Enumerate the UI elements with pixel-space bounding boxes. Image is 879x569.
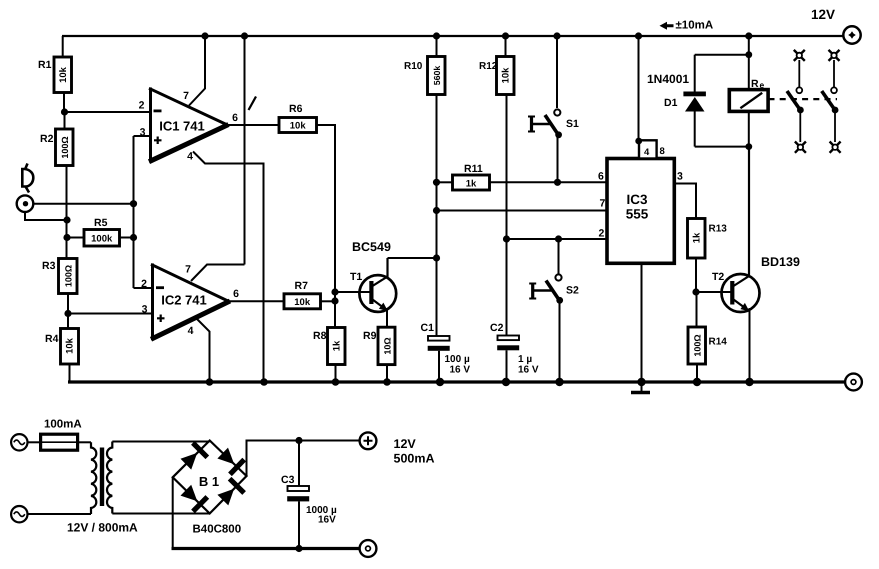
wire: IC2 pin 7 stub to vertical (191, 265, 245, 282)
transformer Tr1 primary winding (91, 442, 96, 514)
resistor R5 100k (84, 230, 120, 247)
wire: IC2 pin 2 from mid vertical (134, 287, 153, 289)
wire: contact 2 lower lead (834, 113, 836, 143)
op-amp IC1 741 triangle (149, 88, 152, 163)
wire: T1 emitter to R9 (386, 308, 388, 327)
wire: relay bottom lead (748, 111, 750, 146)
wire: IC3 pin 1 to bottom rail (641, 263, 643, 382)
node: junction dot S1 on rail (553, 32, 560, 39)
wire: D1 cathode lead (694, 55, 696, 92)
transistor T2 BD139 (722, 274, 760, 312)
svg-text:10k: 10k (501, 67, 512, 84)
svg-text:10k: 10k (290, 121, 307, 132)
svg-text:7: 7 (185, 264, 191, 276)
terminal: 0V output terminal bottom right (845, 374, 862, 391)
wire: mid vertical node (IC1 pin3 / input / R5 / IC2 pin2) (133, 136, 135, 288)
svg-text:6: 6 (598, 171, 604, 183)
relay coil Re (729, 90, 768, 112)
svg-text:2: 2 (139, 100, 145, 112)
svg-text:C1: C1 (421, 322, 435, 334)
node: junction dot R1/R2/pin2 (61, 108, 68, 115)
capacitor C2 1u electrolytic (498, 336, 520, 341)
node: junction dot R7 right (331, 297, 338, 304)
op-amp IC2 741 triangle (151, 264, 154, 341)
node: junction dot at notch (635, 138, 642, 145)
wire: R6 right lead and vertical down to R8 (317, 125, 336, 328)
svg-text:BC549: BC549 (352, 240, 391, 254)
node: junction dot S2 on bottom rail (555, 378, 563, 386)
svg-text:R11: R11 (464, 163, 483, 175)
node: junction dot IC3 pin1 on bottom rail (637, 378, 645, 386)
IC1 non-inverting input plus sign (154, 137, 162, 145)
svg-text:T1: T1 (350, 271, 362, 283)
wire: R12 top lead from rail (505, 36, 507, 57)
svg-text:IC1 741: IC1 741 (159, 119, 205, 134)
contact terminal X bottom-left (795, 142, 806, 153)
wire: C3 bottom lead (298, 501, 300, 548)
resistor R14 100 ohm (688, 327, 706, 364)
IC3 pins 4/8 notch box (639, 140, 657, 158)
node: junction dot IC2 pin7 on rail (241, 32, 248, 39)
node: junction dot R12/C2 at IC3 pin2 wire (503, 235, 510, 242)
relay contact 1 (796, 87, 802, 93)
transistor T1 BC549 (359, 275, 396, 312)
contact terminal X top-right (829, 50, 840, 61)
bridge rectifier B1 diamond (173, 441, 247, 514)
svg-text:4: 4 (187, 151, 193, 163)
wire: IC3 pin 3 output to R13 (674, 184, 696, 219)
node: junction dot R3/R4/IC2 pin3 (64, 310, 71, 317)
wire: junction to IC2 pin 3 (68, 313, 153, 315)
svg-text:100k: 100k (91, 234, 113, 245)
diode D1 1N4001 (683, 92, 706, 97)
node: junction dot R9 on bottom rail (383, 378, 391, 386)
wire: R3 bottom lead (67, 294, 69, 329)
wire: input connector lower bend to divider (25, 212, 67, 220)
svg-text:R10: R10 (404, 61, 423, 72)
node: junction dot collector on R10 vertical (433, 254, 440, 261)
wire: input connector to op-amp inputs node (33, 203, 133, 205)
wire: R1 bottom lead (63, 93, 65, 113)
svg-text:3: 3 (677, 171, 683, 183)
resistor R1 10k (54, 57, 72, 93)
node: junction dot T2 base / R14 (692, 288, 699, 295)
wire: dashed mechanical link relay to contacts (769, 98, 838, 100)
wire: IC1 pin 4 stub down to bottom rail (193, 152, 264, 383)
wire: R14 bottom lead (696, 364, 698, 382)
input arrow symbol (22, 164, 33, 193)
wire: secondary top to bridge top vertex (112, 441, 209, 443)
input connector circle (17, 195, 34, 212)
node: junction dot D1 bottom / relay bottom (745, 143, 752, 150)
node: input node dot at mid vertical (130, 200, 137, 207)
wire: R2 bottom lead down through junctions to R3 (66, 166, 68, 259)
wire: IC1 output to R6 (228, 124, 280, 126)
wire: R14 top lead (696, 292, 698, 327)
IC3 555 timer box (607, 159, 674, 264)
wire: R5 right lead (120, 237, 134, 239)
slash mark on vertical wire (249, 97, 257, 111)
wire: AC2 to transformer primary bottom (28, 513, 92, 515)
node: junction dot C3 top (295, 437, 302, 444)
svg-text:R5: R5 (94, 217, 108, 229)
bridge diode top-left (181, 453, 198, 470)
svg-text:10k: 10k (65, 337, 76, 354)
node: junction dot input/divider (63, 216, 70, 223)
wire: relay branch vertical from rail (748, 36, 750, 90)
relay contact 2 (831, 87, 837, 93)
resistor R12 10k (497, 57, 515, 95)
svg-text:12V / 800mA: 12V / 800mA (67, 521, 138, 535)
svg-text:R9: R9 (363, 330, 377, 342)
T2 emitter with arrow (734, 300, 749, 311)
svg-text:R13: R13 (709, 224, 728, 235)
svg-text:R4: R4 (45, 333, 59, 345)
node: junction dot C3 bottom (295, 545, 302, 552)
wire: R4 bottom lead to rail (69, 364, 71, 382)
node: junction dot R5 left (63, 234, 70, 241)
resistor R11 1k (453, 175, 490, 190)
wire: R11 right lead to IC3 pin 6 (490, 181, 608, 183)
wire: T1 base wire (335, 291, 370, 293)
svg-text:10Ω: 10Ω (382, 337, 392, 354)
wire: D1 top horizontal (695, 54, 749, 56)
svg-text:100Ω: 100Ω (60, 136, 70, 158)
svg-text:3: 3 (142, 304, 148, 316)
node: junction dot D1 top branch (745, 51, 752, 58)
IC2 non-inverting input plus sign (157, 315, 165, 323)
svg-text:R3: R3 (42, 260, 56, 272)
bridge diode bottom-left (181, 485, 198, 502)
node: junction dot IC3 pins 4/8 on rail (635, 32, 642, 39)
wire: R11 left lead (437, 181, 453, 183)
svg-text:100Ω: 100Ω (63, 265, 73, 287)
svg-text:R6: R6 (289, 103, 303, 115)
svg-text:1k: 1k (332, 340, 343, 351)
svg-text:1k: 1k (466, 178, 477, 189)
resistor R7 10k (284, 294, 321, 309)
wire: C3 top lead (298, 441, 300, 487)
wire: R10 top lead from rail (436, 36, 438, 57)
wire: IC3 pin 2 from R12/C2 vertical (507, 238, 608, 240)
bridge diode top-right (217, 448, 234, 465)
svg-text:R14: R14 (709, 337, 728, 348)
svg-text:16V: 16V (318, 515, 336, 526)
wire: contact 1 lower lead (799, 113, 801, 143)
svg-text:e: e (760, 80, 765, 90)
svg-text:1N4001: 1N4001 (647, 72, 689, 86)
svg-text:16 V: 16 V (450, 365, 471, 376)
svg-text:555: 555 (626, 207, 649, 222)
fuse 100mA (41, 434, 78, 450)
svg-text:±10mA: ±10mA (676, 20, 714, 32)
svg-text:1k: 1k (692, 232, 703, 243)
wire: IC1 pin 7 stub to rail (189, 36, 205, 106)
svg-text:D1: D1 (664, 97, 678, 109)
wire: S2 upper lead (558, 239, 560, 274)
terminal: +12V supply terminal top right (843, 26, 860, 43)
ground symbol below bottom rail (641, 382, 643, 392)
svg-text:12V: 12V (394, 437, 417, 451)
capacitor C1 100u electrolytic (428, 336, 450, 341)
resistor R8 1k (328, 328, 346, 365)
wire: bridge left vertex down to 0V rail (172, 477, 174, 548)
IC1 inverting input minus sign (154, 110, 162, 113)
node: junction dot T1 base (331, 288, 338, 295)
svg-text:R7: R7 (295, 280, 309, 292)
svg-text:100Ω: 100Ω (693, 334, 703, 356)
resistor R13 1k (688, 219, 706, 259)
node: junction dot R10 on rail (433, 32, 440, 39)
svg-text:10k: 10k (294, 297, 311, 308)
wire: IC2 output to R7 (229, 300, 284, 302)
IC2 inverting input minus sign (156, 286, 164, 289)
svg-text:BD139: BD139 (761, 255, 800, 269)
wire: D1 anode lead (694, 112, 696, 147)
svg-text:S2: S2 (566, 285, 579, 297)
terminal: 0V supply output (360, 540, 377, 557)
wire: R2 top lead (64, 112, 66, 129)
wire: IC1 pin 3 from mid vertical (134, 135, 151, 137)
svg-text:10k: 10k (58, 66, 69, 83)
svg-text:6: 6 (232, 112, 238, 124)
resistor R2 100 ohm (56, 129, 74, 166)
wire: fuse to transformer primary (78, 441, 91, 443)
svg-text:IC2 741: IC2 741 (161, 293, 207, 308)
label: current arrow (660, 22, 674, 30)
resistor R10 560k (428, 57, 446, 95)
node: junction dot IC3 pin7 wire (433, 207, 440, 214)
svg-text:500mA: 500mA (394, 452, 435, 466)
wire: secondary bottom to bridge bottom vertex (crosses DC- line) (112, 513, 209, 515)
node: junction dot S2 upper on pin2 wire (555, 235, 562, 242)
contact terminal X bottom-right (830, 142, 841, 153)
svg-text:16 V: 16 V (518, 365, 539, 376)
T1 collector (373, 258, 388, 286)
node: junction dot R14 on bottom rail (693, 378, 701, 386)
switch S1 pushbutton (554, 109, 560, 115)
terminal: +12V supply output (360, 432, 377, 449)
resistor R9 10 ohm (378, 327, 395, 364)
svg-text:560k: 560k (432, 66, 442, 86)
node: junction dot C2 on bottom rail (502, 378, 510, 386)
wire: R8 bottom lead (335, 365, 337, 383)
transformer secondary winding (107, 442, 112, 514)
wire: bridge right vertex up and to + output (247, 441, 360, 477)
resistor R6 10k (279, 118, 317, 133)
capacitor C3 1000u electrolytic (288, 486, 310, 491)
svg-text:4: 4 (644, 147, 650, 158)
wire: S1 lower lead to R11 wire (557, 138, 559, 183)
AC mains terminal 2 (11, 506, 27, 522)
svg-text:7: 7 (600, 198, 606, 210)
node: junction dot T2 emitter on bottom rail (745, 378, 753, 386)
wire: IC2 pin7 vertical from rail (crosses IC1 output) (244, 36, 246, 265)
bridge diode bottom-right (217, 489, 234, 506)
wire: contact 1 upper lead (798, 60, 800, 87)
T1 emitter with arrow (373, 300, 388, 311)
transformer core (100, 448, 104, 507)
T2 collector (734, 147, 750, 286)
svg-text:1 µ: 1 µ (518, 354, 532, 365)
wire: C2 bottom lead (506, 350, 508, 382)
svg-text:12V: 12V (811, 7, 835, 22)
svg-text:7: 7 (183, 90, 189, 102)
svg-text:100mA: 100mA (44, 419, 82, 431)
wire: junction to IC1 pin 2 (65, 111, 151, 113)
wire: +12V top supply rail (62, 35, 844, 37)
svg-text:6: 6 (233, 288, 239, 300)
svg-text:4: 4 (188, 325, 194, 337)
svg-text:B40C800: B40C800 (193, 524, 242, 536)
wire: IC2 pin 4 stub down to bottom rail (196, 318, 210, 382)
wire: IC3 pins 4/8 to rail (638, 36, 640, 140)
svg-text:IC3: IC3 (626, 192, 648, 207)
svg-text:8: 8 (660, 146, 665, 157)
svg-text:R2: R2 (40, 133, 54, 145)
svg-text:2: 2 (599, 228, 605, 240)
AC mains terminal 1 (11, 434, 27, 450)
wire: AC1 to fuse (28, 441, 41, 443)
node: junction dot IC1 pin4 on bottom rail (260, 378, 268, 386)
wire: R9 bottom lead (386, 365, 388, 382)
wire: T1 collector horizontal to R10/C1 vertical (388, 257, 437, 259)
svg-text:R12: R12 (479, 61, 498, 72)
node: junction dot S1 lower (554, 179, 561, 186)
svg-text:R: R (751, 78, 759, 90)
svg-text:C3: C3 (281, 474, 295, 486)
switch S2 pushbutton (555, 274, 561, 280)
svg-text:B 1: B 1 (199, 474, 219, 489)
wire: T2 emitter down to rail (749, 308, 751, 382)
resistor R4 10k (61, 329, 79, 365)
wire: IC3 pin 7 from R10 vertical (437, 210, 608, 212)
wire: R7 right lead (321, 300, 336, 302)
wire: R13 bottom lead to base node (695, 258, 697, 292)
wire: C1 bottom lead (438, 351, 440, 382)
wire: S2 lower lead to bottom rail (559, 303, 561, 382)
resistor R3 100 ohm (59, 259, 78, 294)
node: junction dot R5 right on mid vertical (130, 234, 137, 241)
wire: contact 2 upper lead (833, 60, 835, 87)
node: junction dot IC2 pin4 on bottom rail (206, 378, 214, 386)
wire: S1 upper lead from rail (556, 36, 558, 108)
wire: R10 bottom lead down to C1 (through junctions) (436, 95, 438, 337)
node: junction dot C1 on bottom rail (436, 378, 444, 386)
wire: R1 top lead to rail (62, 36, 64, 57)
contact terminal X top-left (794, 50, 805, 61)
wire: R12 bottom lead down to C2 (506, 95, 508, 336)
svg-text:R1: R1 (38, 59, 52, 71)
svg-text:100 µ: 100 µ (445, 354, 470, 365)
node: junction dot IC1 pin7 on rail (201, 32, 208, 39)
svg-text:R8: R8 (313, 330, 327, 342)
svg-text:T2: T2 (712, 271, 724, 283)
wire: 0V bottom rail (main circuit) (68, 380, 845, 383)
node: junction dot R11 left (433, 179, 440, 186)
svg-text:S1: S1 (566, 118, 579, 130)
svg-text:C2: C2 (490, 322, 504, 334)
node: junction dot R8 on bottom rail (332, 378, 340, 386)
node: junction dot relay branch on rail (745, 32, 752, 39)
node: junction dot R12 on rail (502, 32, 509, 39)
wire: supply 0V bottom rail (172, 547, 360, 550)
wire: D1 bottom horizontal (695, 146, 749, 148)
wire: T2 base wire (696, 291, 731, 293)
wire: R5 left lead (67, 237, 84, 239)
